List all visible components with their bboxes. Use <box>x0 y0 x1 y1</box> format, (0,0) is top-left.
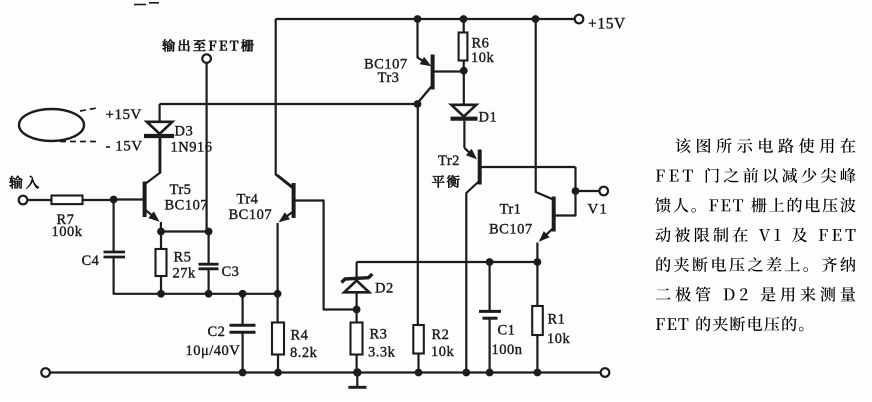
node junction top rail / R6 <box>460 15 468 23</box>
wire horizontal D3 anode to Tr3 collector <box>160 103 418 105</box>
svg-text:100n: 100n <box>492 342 523 358</box>
label +15V near D3 <box>106 107 142 123</box>
capacitor C2 electrolytic <box>186 294 256 373</box>
label output to FET gate chinese <box>162 39 254 51</box>
node junction C1 bottom <box>486 369 494 377</box>
svg-text:C3: C3 <box>222 264 240 280</box>
transistor Q Tr4 BC107 npn <box>277 175 294 294</box>
svg-text:+15V: +15V <box>588 16 626 33</box>
svg-text:10k: 10k <box>471 50 495 66</box>
node junction Tr4 emitter / R4 <box>274 290 282 298</box>
caption text line 7 <box>656 316 804 331</box>
label input chinese <box>9 176 39 189</box>
wire V1 node vertical <box>554 167 576 216</box>
node junction R2 bottom <box>415 369 423 377</box>
svg-text:Tr4: Tr4 <box>237 192 259 208</box>
svg-text:Tr3: Tr3 <box>378 70 400 86</box>
node junction C2 top <box>239 290 247 298</box>
terminal V1 <box>588 187 609 218</box>
node junction Tr5 emitter / R5 <box>157 228 165 236</box>
resistor R4 <box>272 294 318 373</box>
resistor R3 <box>351 310 396 373</box>
svg-text:R1: R1 <box>548 312 566 328</box>
svg-text:BC107: BC107 <box>165 198 209 214</box>
annotation dashed leader bottom <box>60 141 98 143</box>
diode D3 1N916 <box>144 104 212 172</box>
node junction R3 bottom / ground <box>353 368 361 376</box>
annotation dashed leader top <box>80 108 97 111</box>
svg-text:C2: C2 <box>208 324 226 340</box>
node junction Tr1 emitter / R1 <box>534 258 542 266</box>
node junction R5 bottom <box>157 290 165 298</box>
svg-text:R4: R4 <box>291 328 309 344</box>
svg-text:10k: 10k <box>547 331 571 347</box>
svg-text:D2: D2 <box>375 281 394 297</box>
svg-text:3.3k: 3.3k <box>368 345 396 361</box>
node junction R6 / D1 / Tr3 base <box>460 67 468 75</box>
terminal output to FET gate <box>202 54 211 63</box>
svg-text:R2: R2 <box>432 327 450 343</box>
zener diode D2 <box>342 262 394 310</box>
caption text line 1 <box>675 138 855 153</box>
svg-text:Tr5: Tr5 <box>170 182 192 198</box>
svg-text:D1: D1 <box>479 110 498 126</box>
capacitor C1 <box>479 262 523 373</box>
transistor Q Tr1 BC107 npn <box>536 19 554 262</box>
terminal bottom left <box>41 368 50 377</box>
svg-text:8.2k: 8.2k <box>290 345 318 361</box>
wire emitter bus y294 <box>114 257 278 294</box>
node junction top rail / Tr1 collector <box>532 15 540 23</box>
node junction R7 / C4 / Tr5 base <box>110 196 118 204</box>
wire R2 column from Tr3 collector node <box>417 104 419 325</box>
ground <box>348 373 366 388</box>
caption text line 3 <box>655 197 855 212</box>
svg-text:R5: R5 <box>174 250 192 266</box>
diode D1 <box>451 71 498 126</box>
print speck dashes top <box>134 3 159 5</box>
wire Tr5 emitter to C3 column <box>161 230 209 232</box>
capacitor C3 <box>199 232 240 294</box>
label -15V near D3 <box>106 139 143 155</box>
label Tr2 <box>438 153 460 169</box>
node junction C1 top <box>486 258 494 266</box>
resistor R5 <box>156 232 197 294</box>
node junction R1 bottom <box>534 369 542 377</box>
wire V1 terminal lead <box>576 190 600 192</box>
node junction C3 bottom <box>205 290 213 298</box>
wire +15V top rail <box>276 18 575 20</box>
svg-text:100k: 100k <box>52 224 83 240</box>
label Tr5 <box>165 182 209 214</box>
svg-text:V1: V1 <box>588 202 608 218</box>
svg-text:1N916: 1N916 <box>171 140 213 156</box>
resistor R7 <box>27 196 113 241</box>
terminal +15V <box>575 15 626 33</box>
transistor Q Tr5 BC107 npn <box>114 137 161 232</box>
node junction C2 bottom <box>239 369 247 377</box>
svg-text:- 15V: - 15V <box>106 139 143 155</box>
svg-text:+15V: +15V <box>106 107 142 123</box>
resistor R1 <box>532 262 570 373</box>
caption text line 4 <box>656 227 856 242</box>
terminal input <box>19 196 28 205</box>
wire output gate lead <box>206 63 208 232</box>
caption text line 5 <box>656 257 855 272</box>
caption text line 6 <box>656 287 856 302</box>
annotation ellipse <box>19 109 84 141</box>
svg-text:27k: 27k <box>173 266 197 282</box>
svg-text:Tr2: Tr2 <box>438 153 460 169</box>
resistor R2 <box>413 325 454 373</box>
wire Tr4 base to D2 anode <box>294 201 357 310</box>
wire horizontal D2 cathode to Tr1 emitter <box>357 261 538 263</box>
node junction Tr2 collector bottom <box>462 369 470 377</box>
node junction V1 <box>572 187 580 195</box>
label Tr4 <box>229 192 273 224</box>
label Tr1 <box>489 202 533 238</box>
transistor Q Tr3 BC107 pnp <box>418 19 464 103</box>
svg-text:D3: D3 <box>175 124 194 140</box>
resistor R6 <box>459 19 495 71</box>
svg-text:Tr1: Tr1 <box>500 202 522 218</box>
svg-text:10k: 10k <box>431 344 455 360</box>
wire bottom rail 0V <box>50 371 601 373</box>
svg-text:C1: C1 <box>498 323 516 339</box>
node junction top rail / Tr3 emitter <box>414 15 422 23</box>
label Tr2 balance chinese <box>432 175 460 187</box>
svg-text:C4: C4 <box>82 253 100 269</box>
node junction C3 top / output line <box>205 228 213 236</box>
svg-text:BC107: BC107 <box>489 222 533 238</box>
svg-text:BC107: BC107 <box>229 207 273 223</box>
wire Tr4 collector to +15V rail <box>276 19 293 188</box>
node junction R4 bottom <box>274 369 282 377</box>
svg-text:10μ/40V: 10μ/40V <box>186 343 241 359</box>
svg-text:R3: R3 <box>370 327 388 343</box>
node junction Tr3 collector / wire <box>414 100 422 108</box>
caption text line 2 <box>656 168 856 183</box>
node junction D2 anode / R3 / Tr4 base link <box>353 306 361 314</box>
capacitor C4 <box>82 200 126 269</box>
transistor Q Tr2 pnp balance <box>464 121 575 373</box>
label Tr3 <box>364 57 408 87</box>
terminal bottom right <box>601 368 610 377</box>
